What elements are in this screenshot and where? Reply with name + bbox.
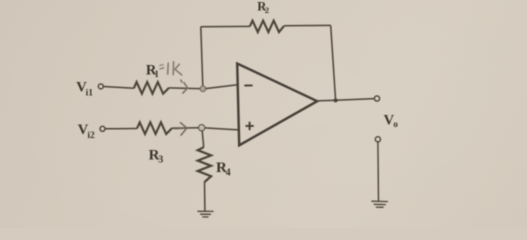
annotation pencil chevron arrow on R1 wire bbox=[181, 80, 188, 93]
op-amp minus sign bbox=[244, 84, 252, 86]
svg-text:3: 3 bbox=[158, 155, 163, 166]
wire op-amp output bbox=[317, 99, 374, 101]
svg-text:1: 1 bbox=[154, 70, 159, 80]
wire node B down to R4 bbox=[202, 131, 204, 147]
node B (non-inverting input junction) bbox=[199, 125, 205, 131]
svg-text:4: 4 bbox=[226, 167, 231, 178]
terminal output ground branch bbox=[375, 137, 380, 142]
wire node A to op-amp minus input bbox=[206, 85, 238, 89]
ground (right, output) bbox=[371, 201, 388, 207]
resistor R2 bbox=[250, 21, 284, 33]
node output junction bbox=[334, 98, 338, 102]
terminal Vo bbox=[374, 96, 379, 101]
wire R1 to node A bbox=[169, 87, 203, 90]
resistor R4 bbox=[198, 147, 211, 182]
wire R4 to ground bbox=[204, 182, 206, 211]
wire Vi2 to R3 bbox=[105, 128, 137, 130]
ground (left, under R4) bbox=[197, 211, 213, 217]
wire top rail right segment bbox=[284, 24, 331, 26]
terminal Vi2 bbox=[100, 126, 105, 131]
wire feedback vertical bbox=[331, 25, 336, 100]
annotation pencil "=1k" after R1 label bbox=[160, 62, 182, 75]
node A (inverting input junction) bbox=[200, 86, 206, 92]
resistor R3 bbox=[137, 122, 172, 134]
wire output ground branch bbox=[377, 142, 380, 201]
wire R3 to node B bbox=[172, 127, 202, 129]
wire node B to op-amp plus input bbox=[205, 128, 239, 130]
svg-text:i2: i2 bbox=[87, 131, 95, 141]
wire Vi1 to R1 bbox=[103, 87, 133, 89]
annotation dark arrow on R3 wire bbox=[175, 123, 187, 136]
wire top rail left segment bbox=[201, 25, 250, 27]
op-amp plus sign bbox=[246, 122, 254, 130]
svg-text:2: 2 bbox=[265, 5, 269, 15]
svg-text:o: o bbox=[393, 119, 398, 129]
svg-text:i1: i1 bbox=[86, 88, 94, 98]
wire top-left vertical (node A to top rail) bbox=[201, 27, 203, 89]
resistor R1 bbox=[134, 82, 169, 94]
op-amp U1 bbox=[237, 64, 317, 146]
terminal Vi1 bbox=[98, 84, 103, 89]
